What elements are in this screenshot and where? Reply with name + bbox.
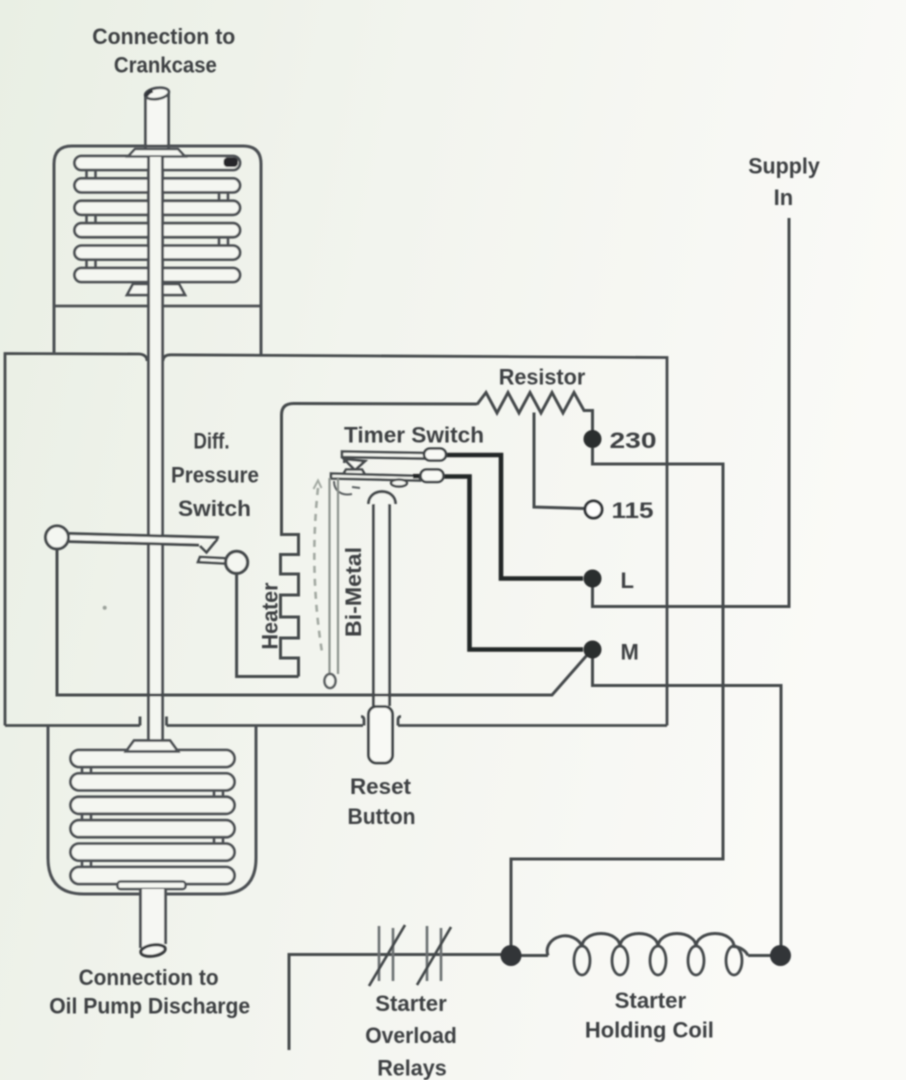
svg-text:Pressure: Pressure (171, 463, 259, 488)
svg-text:Supply: Supply (748, 154, 820, 179)
svg-text:Connection to: Connection to (92, 24, 235, 49)
svg-text:Oil Pump Discharge: Oil Pump Discharge (49, 994, 250, 1019)
svg-text:L: L (621, 568, 634, 593)
svg-text:Relays: Relays (377, 1056, 447, 1080)
svg-text:Starter: Starter (375, 991, 447, 1016)
svg-text:230: 230 (610, 428, 657, 453)
svg-text:Crankcase: Crankcase (114, 53, 217, 78)
svg-text:Reset: Reset (350, 774, 412, 799)
svg-text:Timer Switch: Timer Switch (344, 423, 484, 448)
svg-text:Button: Button (348, 804, 416, 829)
svg-text:In: In (774, 185, 794, 210)
svg-text:Overload: Overload (365, 1023, 457, 1048)
svg-text:115: 115 (612, 498, 654, 523)
svg-text:Holding Coil: Holding Coil (585, 1018, 714, 1043)
svg-text:M: M (621, 640, 639, 665)
svg-text:Starter: Starter (615, 988, 687, 1013)
svg-text:Switch: Switch (178, 496, 251, 521)
svg-text:Diff.: Diff. (194, 429, 230, 454)
svg-text:Bi-Metal: Bi-Metal (341, 547, 366, 637)
svg-text:Connection to: Connection to (79, 965, 219, 990)
svg-text:Resistor: Resistor (499, 365, 586, 390)
svg-text:Heater: Heater (258, 582, 283, 649)
